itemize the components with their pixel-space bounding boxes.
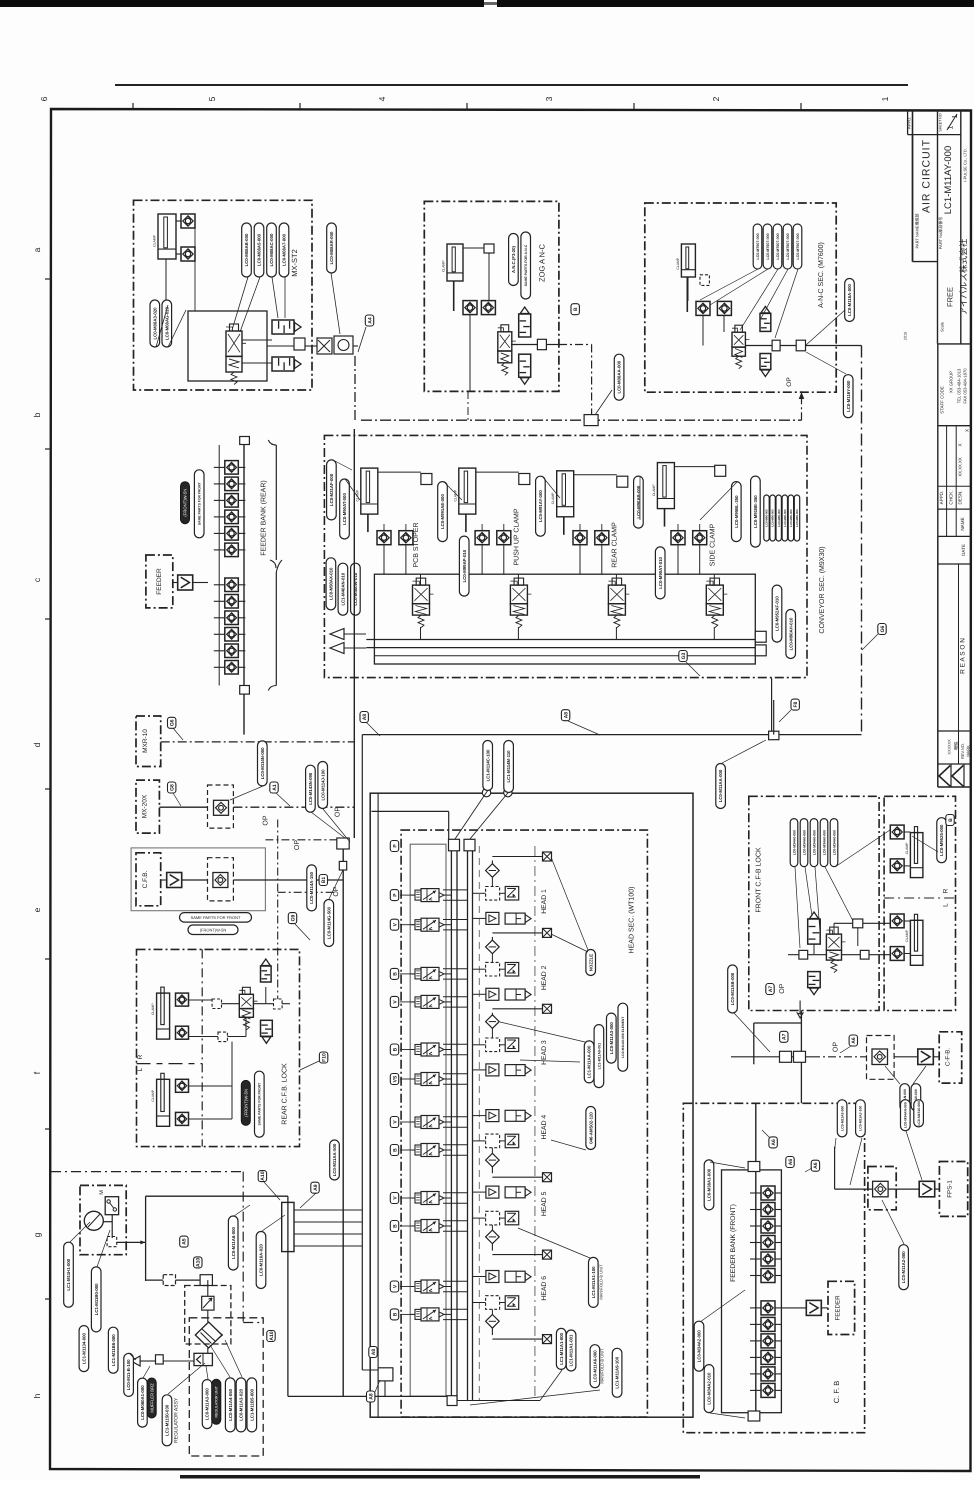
svg-text:LC1-M11B0-000: LC1-M11B0-000 [94,1283,99,1315]
svg-text:R: R [943,888,950,893]
svg-text:LC0-M90AT-000: LC0-M90AT-000 [342,493,347,525]
svg-text:F8: F8 [793,701,799,707]
svg-text:LC0-M7607-000: LC0-M7607-000 [766,233,770,259]
svg-text:5: 5 [207,96,217,101]
svg-text:FREE: FREE [946,287,955,307]
svg-text:LC0-M11A2-000: LC0-M11A2-000 [901,1251,906,1283]
svg-text:LC0-M11A3-000: LC0-M11A3-000 [840,1106,844,1131]
svg-text:CLAMP: CLAMP [153,234,157,246]
svg-text:LC0-M114G-500: LC0-M114G-500 [326,906,331,939]
svg-text:LC0-M34A0-000: LC0-M34A0-000 [802,830,806,855]
svg-text:A8: A8 [362,714,368,721]
svg-text:LC0-M114N-000: LC0-M114N-000 [260,747,265,779]
svg-text:C.F.B.: C.F.B. [142,870,149,888]
svg-text:LC0-M08AA-000: LC0-M08AA-000 [617,360,622,393]
svg-text:LC1-M11AY-000: LC1-M11AY-000 [943,146,954,214]
svg-text:LC0-M38A1-000: LC0-M38A1-000 [707,1168,712,1201]
svg-text:LC0-M114A-150: LC0-M114A-150 [309,871,314,903]
svg-text:CLAMP: CLAMP [442,260,446,272]
svg-text:SIDE CLAMP: SIDE CLAMP [710,523,717,566]
svg-text:TEL 053-484-1013: TEL 053-484-1013 [957,368,962,403]
svg-text:A7: A7 [782,1033,788,1040]
svg-text:LC0-M90-000: LC0-M90-000 [783,509,787,527]
svg-text:G9: G9 [290,915,296,922]
svg-text:MUFFLER BRZ: MUFFLER BRZ [149,1383,154,1413]
svg-text:LC0-M08A5-000: LC0-M08A5-000 [257,233,262,266]
svg-text:F10: F10 [321,1053,327,1062]
svg-text:LC1-M11A1-000: LC1-M11A1-000 [559,1332,564,1364]
svg-text:LC0-M116Y-000: LC0-M116Y-000 [846,380,851,412]
svg-text:SAME PARTS FOR FRONT: SAME PARTS FOR FRONT [191,915,241,920]
svg-text:G6: G6 [170,719,176,726]
svg-text:HEAD 1: HEAD 1 [541,889,548,914]
svg-text:R E A S O N: R E A S O N [960,638,967,674]
svg-text:B: B [392,972,398,976]
svg-text:046-AMS02-120: 046-AMS02-120 [588,1112,593,1144]
svg-text:MX-20X: MX-20X [142,794,149,818]
svg-text:CLAMP: CLAMP [905,842,909,854]
svg-text:OP: OP [779,983,786,993]
svg-text:LC0-M90AX-010: LC0-M90AX-010 [329,567,334,600]
svg-text:LC0-M90-000: LC0-M90-000 [765,509,769,527]
svg-text:A10: A10 [260,1171,266,1180]
svg-text:CLAMP: CLAMP [355,489,359,501]
svg-text:LC0-M34A2-000: LC0-M34A2-000 [697,1330,702,1363]
svg-text:DATE: DATE [961,544,966,556]
svg-text:LC0-M11A3-020: LC0-M11A3-020 [239,1388,244,1420]
svg-text:LC0-M91AY-000: LC0-M91AY-000 [538,490,543,522]
svg-text:FEEDER: FEEDER [156,568,163,595]
svg-text:A6: A6 [771,1139,777,1146]
svg-text:X: X [964,429,969,432]
svg-text:A.N.C.(F3-20): A.N.C.(F3-20) [511,245,516,273]
svg-text:h: h [32,1393,42,1398]
svg-text:LC1-M114M-110: LC1-M114M-110 [506,750,511,783]
svg-text:M: M [99,1190,105,1195]
svg-text:MXR-10: MXR-10 [142,729,149,753]
svg-text:L: L [137,1067,144,1071]
svg-text:LC0-M143N-090: LC0-M143N-090 [308,772,313,805]
svg-text:CONVEYOR SEC. (M9X30): CONVEYOR SEC. (M9X30) [818,546,826,633]
svg-text:LC0-M080A1-000: LC0-M080A1-000 [140,1385,145,1420]
svg-text:LC1-M40AN-010: LC1-M40AN-010 [341,572,346,605]
svg-text:CLAMP: CLAMP [453,489,457,501]
svg-text:A6: A6 [851,1037,857,1044]
svg-text:REAR CLAMP: REAR CLAMP [612,522,619,568]
svg-text:HEAD 5: HEAD 5 [541,1191,548,1216]
svg-text:1: 1 [880,96,890,101]
svg-text:LC0-M34A0-000: LC0-M34A0-000 [792,830,796,855]
svg-text:OP: OP [294,840,301,850]
svg-text:NAME: NAME [960,517,965,530]
svg-text:SAME PARTS FOR FRONT: SAME PARTS FOR FRONT [198,482,202,526]
svg-text:LC1-M11A9-001: LC1-M11A9-001 [597,1043,601,1070]
svg-text:REV.NO.: REV.NO. [960,743,965,759]
svg-text:B: B [392,1312,398,1316]
svg-text:SHEET NO: SHEET NO [939,113,943,132]
svg-text:VS: VS [392,1075,398,1082]
svg-text:増銘: 増銘 [954,741,959,750]
svg-text:LC1-M114C-100: LC1-M114C-100 [485,749,490,781]
svg-text:LC0-M1510-000: LC0-M1510-000 [917,1101,921,1126]
svg-text:CLAMP: CLAMP [151,1003,155,1015]
svg-text:LC1-M1134-000: LC1-M1134-000 [82,1332,87,1364]
svg-text:DESN.: DESN. [958,490,963,504]
svg-text:C. F. B: C. F. B [832,1381,841,1404]
svg-text:LC0-M11AA-500: LC0-M11AA-500 [332,1143,337,1176]
svg-text:LC0-M90-000: LC0-M90-000 [777,509,781,527]
svg-text:LC0-M08AR-000: LC0-M08AR-000 [329,231,334,264]
svg-text:CLAMP: CLAMP [151,1089,155,1101]
svg-text:LC0-M99AP-010: LC0-M99AP-010 [462,549,467,582]
svg-text:6: 6 [39,96,49,101]
svg-text:LC0-M11AB-000: LC0-M11AB-000 [730,972,735,1005]
svg-text:B: B [948,818,954,822]
svg-text:A6: A6 [813,1162,819,1169]
svg-text:B: B [573,307,579,311]
svg-text:ZOG A N-C: ZOG A N-C [538,243,547,282]
svg-text:LC0-M91BE-350: LC0-M91BE-350 [753,495,758,528]
svg-text:C-F-B.: C-F-B. [945,1048,952,1066]
svg-text:LC0-M11A0-000 ELEMENT: LC0-M11A0-000 ELEMENT [621,1017,625,1058]
svg-text:LC1-M11AA-000: LC1-M11AA-000 [587,1045,592,1078]
svg-text:LC0-M31AF-000: LC0-M31AF-000 [329,473,334,506]
svg-text:A8: A8 [563,712,569,719]
svg-text:PART NAME構成部: PART NAME構成部 [914,214,919,249]
svg-text:A10: A10 [269,1331,275,1340]
svg-text:G8: G8 [170,784,176,791]
svg-text:LC0-M08A7-000: LC0-M08A7-000 [282,233,287,266]
svg-text:NOZZLE: NOZZLE [588,954,593,971]
svg-text:A4: A4 [367,317,373,324]
svg-text:PUSH UP CLAMP: PUSH UP CLAMP [514,508,521,565]
svg-text:LC0-M34A2-010: LC0-M34A2-010 [707,1372,712,1405]
svg-text:LC0-M08AC-000: LC0-M08AC-000 [269,233,274,266]
svg-text:LC0-M11AA-000: LC0-M11AA-000 [718,769,723,802]
svg-text:XX.XX.XX: XX.XX.XX [958,457,963,476]
svg-text:2: 2 [711,96,721,101]
svg-text:LC0-M116A-020: LC0-M116A-020 [259,1244,264,1276]
svg-text:A8: A8 [369,1393,375,1400]
svg-text:G3: G3 [681,652,687,659]
svg-text:A6: A6 [788,1159,794,1166]
svg-text:LC0-M116A-000: LC0-M116A-000 [847,284,852,316]
svg-text:CLAMP: CLAMP [551,492,555,504]
svg-text:LC0-M34A0-000: LC0-M34A0-000 [832,830,836,855]
svg-text:OP: OP [833,1042,840,1052]
svg-text:A1: A1 [272,784,278,791]
svg-text:OP: OP [263,815,270,825]
svg-text:(FRONT)W-5N: (FRONT)W-5N [200,927,227,932]
svg-text:LC1-M11A1-100: LC1-M11A1-100 [591,1266,596,1298]
svg-text:CLAMP: CLAMP [676,257,680,269]
svg-text:MX-ST2: MX-ST2 [290,249,299,277]
svg-text:HEAD 2: HEAD 2 [541,965,548,990]
svg-text:CHCK.: CHCK. [948,490,953,504]
svg-text:REGULATOR UNIT: REGULATOR UNIT [215,1385,219,1417]
svg-text:OP: OP [335,807,342,817]
svg-text:A5: A5 [182,1238,188,1245]
svg-text:CLAMP: CLAMP [905,929,909,941]
svg-text:LC0-M90-000: LC0-M90-000 [795,509,799,527]
svg-text:LC0-M11A8-000: LC0-M11A8-000 [231,1227,236,1259]
svg-text:LC0-M11-B-100: LC0-M11-B-100 [126,1359,131,1390]
svg-text:d: d [32,742,42,747]
svg-text:XX GROUP: XX GROUP [949,371,954,393]
svg-text:LC0-M7607-000: LC0-M7607-000 [786,233,790,259]
svg-text:LC0-M7607-000: LC0-M7607-000 [796,233,800,259]
svg-text:LC0-M08AB-000: LC0-M08AB-000 [244,233,249,266]
svg-text:LC0-M952AF-010: LC0-M952AF-010 [775,596,780,631]
svg-text:B: B [392,1224,398,1228]
svg-text:LC0-M9525-000: LC0-M9525-000 [939,824,944,856]
svg-text:LC0-M7607-000: LC0-M7607-000 [776,233,780,259]
svg-text:A-N-C SEC. (M7600): A-N-C SEC. (M7600) [817,242,825,308]
svg-text:LC0-M08A3-020: LC0-M08A3-020 [152,307,157,340]
svg-text:(FRONT)W-5N: (FRONT)W-5N [183,489,188,517]
svg-text:FPS-1: FPS-1 [947,1180,954,1198]
svg-text:LC0-M7607-000: LC0-M7607-000 [756,233,760,259]
svg-text:MARK: MARK [965,745,970,757]
svg-text:LC0-M90AT-010: LC0-M90AT-010 [658,556,663,588]
svg-text:b: b [32,412,42,417]
svg-text:e: e [32,907,42,912]
svg-text:1: 1 [952,114,959,118]
svg-text:LC1-M11B5-000: LC1-M11B5-000 [249,1388,254,1420]
svg-text:LC0-M11A6-000: LC0-M11A6-000 [593,1350,598,1382]
svg-text:APPD.: APPD. [939,491,944,505]
svg-text:HEAD 4: HEAD 4 [541,1115,548,1140]
svg-text:LC0-M114J-100: LC0-M114J-100 [320,769,325,801]
svg-text:SAME PARTS FOR FRONT: SAME PARTS FOR FRONT [258,1082,262,1126]
svg-text:LC0-M991AE-000: LC0-M991AE-000 [440,494,445,529]
svg-text:FRONT C.F-B LOCK: FRONT C.F-B LOCK [756,847,763,913]
svg-text:B: B [392,1148,398,1152]
svg-text:APPD.: APPD. [906,117,911,130]
svg-text:REGULATOR ASSY: REGULATOR ASSY [174,1397,180,1443]
svg-text:(FRONT)W-5N: (FRONT)W-5N [243,1089,248,1117]
svg-text:SAME PARTS FOR A-N-C: SAME PARTS FOR A-N-C [524,244,528,286]
svg-text:LC0-M11AJ-100: LC0-M11AJ-100 [859,1106,863,1131]
svg-text:G6: G6 [880,625,886,632]
svg-text:LC0-M34A0-000: LC0-M34A0-000 [812,830,816,855]
svg-text:A10: A10 [196,1258,202,1267]
svg-text:PART No部品番号: PART No部品番号 [938,217,943,249]
svg-text:LC1-M11A1-001: LC1-M11A1-001 [569,1334,574,1366]
svg-text:LC0-M11A3-000: LC0-M11A3-000 [205,1388,210,1420]
svg-text:OP: OP [333,886,340,896]
svg-text:LC1-M1150-030: LC1-M1150-030 [165,1404,170,1436]
svg-text:I-PULSE Co., LTD.: I-PULSE Co., LTD. [962,148,967,182]
svg-text:FEEDER BANK (FRONT): FEEDER BANK (FRONT) [730,1204,737,1282]
svg-text:g: g [32,1232,42,1237]
svg-text:LC0-M90-000: LC0-M90-000 [789,509,793,527]
svg-text:LC0-M11A3-000: LC0-M11A3-000 [609,1022,614,1054]
svg-text:B: B [392,1047,398,1051]
svg-text:HEAD 6: HEAD 6 [541,1276,548,1301]
svg-text:LC0-M90-000: LC0-M90-000 [771,509,775,527]
svg-text:A7: A7 [768,986,774,993]
svg-text:AIR CIRCUIT: AIR CIRCUIT [921,139,933,213]
svg-text:CLAMP: CLAMP [652,484,656,496]
svg-text:B1: B1 [321,877,327,884]
svg-text:LC0-M08AG-020: LC0-M08AG-020 [164,306,169,340]
svg-text:R: R [137,1054,144,1059]
svg-text:MANIFOLD-B UNIT: MANIFOLD-B UNIT [599,1264,604,1300]
svg-text:FAX 053-484-1870: FAX 053-484-1870 [963,368,968,404]
svg-text:LC1-M11B8-000: LC1-M11B8-000 [111,1334,116,1366]
svg-text:LC0-M95BL-350: LC0-M95BL-350 [734,495,739,528]
svg-text:a: a [32,247,42,252]
svg-text:MANIFOLD-B UNIT: MANIFOLD-B UNIT [600,1348,605,1384]
svg-text:LC0-M90AH-010: LC0-M90AH-010 [788,617,793,650]
svg-text:FEEDER: FEEDER [835,1295,842,1321]
svg-text:HEAD SEC. (WT100): HEAD SEC. (WT100) [628,887,636,954]
svg-text:LC0-M34A0-000: LC0-M34A0-000 [822,830,826,855]
svg-text:X: X [958,443,963,446]
svg-text:STAFF CODE: STAFF CODE [940,386,945,414]
svg-text:PCB STOPER: PCB STOPER [413,523,420,568]
svg-text:LC0-M34AN-000: LC0-M34AN-000 [904,1102,908,1128]
svg-text:FEEDER BANK (REAR): FEEDER BANK (REAR) [260,480,268,555]
svg-text:3: 3 [544,96,554,101]
svg-text:LC1-M11A9-100: LC1-M11A9-100 [615,1356,620,1388]
svg-text:XXXXXX: XXXXXX [948,739,952,755]
svg-text:A9: A9 [313,1184,319,1191]
svg-text:アイパルス株式会社: アイパルス株式会社 [958,238,968,315]
svg-text:A8: A8 [371,1349,377,1356]
svg-text:REAR C.F.B. LOCK: REAR C.F.B. LOCK [282,1063,289,1125]
svg-text:LC0-M11A4-050: LC0-M11A4-050 [228,1388,233,1420]
svg-text:LC1-M11H1-000: LC1-M11H1-000 [66,1258,71,1290]
svg-text:L: L [943,903,950,907]
svg-text:2016: 2016 [904,332,908,340]
svg-text:4: 4 [377,96,387,101]
svg-text:Scale: Scale [939,321,944,332]
svg-text:OP: OP [786,377,793,386]
